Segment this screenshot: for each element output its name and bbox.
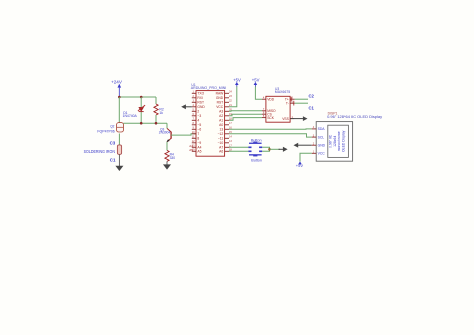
svg-text:~6: ~6 xyxy=(197,128,201,132)
svg-text:GND: GND xyxy=(216,96,224,100)
power +24V xyxy=(111,80,123,97)
svg-text:C1: C1 xyxy=(110,157,116,162)
wire iron to ground xyxy=(118,154,120,166)
svg-text:MAX6675: MAX6675 xyxy=(275,90,290,94)
svg-text:~12: ~12 xyxy=(218,132,224,136)
svg-text:GND: GND xyxy=(197,105,205,109)
svg-text:8: 8 xyxy=(197,137,199,141)
svg-text:A2: A2 xyxy=(219,114,223,118)
ground R4 xyxy=(163,164,171,169)
thermocouple pin T+ xyxy=(290,97,292,102)
heater SOLDERING IRON xyxy=(84,141,122,163)
svg-text:ARDUINO_PRO_MINI: ARDUINO_PRO_MINI xyxy=(191,85,227,90)
svg-text:VCC: VCC xyxy=(318,152,326,156)
svg-text:RAW: RAW xyxy=(216,92,224,96)
svg-text:SDA: SDA xyxy=(318,127,326,131)
wire gate rail xyxy=(123,122,167,124)
ground DISP1 GND arrow xyxy=(294,143,312,148)
wire SDA xyxy=(229,128,312,130)
diode D1 zener 1N4740A xyxy=(123,97,146,123)
svg-text:2: 2 xyxy=(197,110,199,114)
node junction R2 bottom xyxy=(155,122,158,125)
ground iron xyxy=(115,166,123,171)
svg-text:2N3904: 2N3904 xyxy=(159,130,171,134)
ground U3 VSS arrow xyxy=(291,116,308,121)
resistor R2 xyxy=(154,97,164,123)
power +5V (U3 VDD) xyxy=(252,78,260,87)
svg-text:VCC: VCC xyxy=(216,105,224,109)
wire button A7 xyxy=(229,146,248,148)
wire U1 VCC to +5V xyxy=(229,87,237,107)
svg-text:C2: C2 xyxy=(309,93,315,98)
svg-text:RXI: RXI xyxy=(197,96,203,100)
wire Q2 drain to iron xyxy=(118,134,120,146)
svg-text:~11: ~11 xyxy=(218,137,224,141)
svg-text:~9: ~9 xyxy=(197,141,201,145)
svg-text:TXO: TXO xyxy=(197,92,204,96)
wire top rail xyxy=(119,96,156,98)
svg-text:A6: A6 xyxy=(219,150,223,154)
svg-text:GND: GND xyxy=(318,143,326,147)
svg-text:+5V: +5V xyxy=(252,78,260,83)
thermocouple pin T- xyxy=(293,101,295,106)
node junction D1 bottom xyxy=(140,122,143,125)
wire SCK xyxy=(229,118,262,121)
svg-text:13: 13 xyxy=(220,128,224,132)
wire T- to C1 xyxy=(295,102,308,104)
svg-text:RST: RST xyxy=(217,101,224,105)
wire buttons to ground xyxy=(262,147,269,149)
wire 24V down to Q2 xyxy=(118,97,120,124)
svg-text:~10: ~10 xyxy=(218,141,224,145)
button S2 xyxy=(248,151,262,163)
svg-text:330: 330 xyxy=(170,156,176,160)
svg-text:A0: A0 xyxy=(219,123,223,127)
svg-text:A5: A5 xyxy=(197,150,201,154)
wire button A6 xyxy=(229,150,248,152)
svg-text:1k: 1k xyxy=(159,111,163,115)
wire Q3 base to U1 pin 8 xyxy=(171,134,196,135)
svg-text:VSS: VSS xyxy=(282,117,289,121)
svg-text:+24V: +24V xyxy=(111,80,123,85)
svg-text:Q2: Q2 xyxy=(110,125,114,129)
IC U1 ARDUINO_PRO_MINI xyxy=(191,83,233,156)
node junction D1 top xyxy=(140,96,143,99)
display DISP1 OLED xyxy=(312,111,383,161)
svg-text:~3: ~3 xyxy=(197,114,201,118)
svg-text:VDD: VDD xyxy=(267,97,275,101)
svg-text:A1: A1 xyxy=(219,119,223,123)
IC U3 MAX6675 xyxy=(262,87,295,122)
svg-text:SCK: SCK xyxy=(267,116,275,120)
svg-text:C3: C3 xyxy=(110,141,116,146)
node junction 24V rail xyxy=(118,96,121,99)
wire T+ to C2 xyxy=(295,98,308,100)
ground U1 GND arrow xyxy=(181,104,192,109)
svg-text:A3: A3 xyxy=(219,110,223,114)
transistor Q3 2N3904 xyxy=(159,123,171,150)
svg-text:4: 4 xyxy=(197,119,199,123)
svg-text:OLED Display: OLED Display xyxy=(342,130,346,152)
node junction buttons xyxy=(268,148,271,151)
wire +5V to U3 VDD xyxy=(255,87,262,100)
svg-text:SCL: SCL xyxy=(318,135,325,139)
svg-text:FQP47P06: FQP47P06 xyxy=(97,129,114,133)
wire CS xyxy=(229,114,262,116)
wire DISP1 VCC to +5V xyxy=(300,153,312,161)
button S1 xyxy=(248,138,262,148)
wire MISO xyxy=(229,110,262,113)
ground buttons arrow xyxy=(279,147,288,152)
svg-text:Button: Button xyxy=(251,158,262,162)
svg-text:~5: ~5 xyxy=(197,123,201,127)
transistor Q2 FQP47P06 xyxy=(97,123,123,134)
svg-text:7: 7 xyxy=(197,132,199,136)
svg-text:A5: A5 xyxy=(189,148,193,152)
svg-text:T-: T- xyxy=(286,101,289,105)
svg-text:1N4740A: 1N4740A xyxy=(123,114,138,118)
power +5V (U1 VCC) xyxy=(233,78,241,87)
wire SCL xyxy=(229,134,312,137)
svg-text:0.96" 128*64 IIC OLED Display: 0.96" 128*64 IIC OLED Display xyxy=(327,115,382,119)
power +5V (DISP1) xyxy=(296,161,304,168)
svg-text:RST: RST xyxy=(197,101,204,105)
svg-text:+5V: +5V xyxy=(296,163,304,168)
svg-text:+5V: +5V xyxy=(233,78,241,83)
svg-text:C1: C1 xyxy=(309,106,315,111)
resistor R4 xyxy=(165,150,175,164)
svg-text:SOLDERING IRON: SOLDERING IRON xyxy=(84,149,115,154)
